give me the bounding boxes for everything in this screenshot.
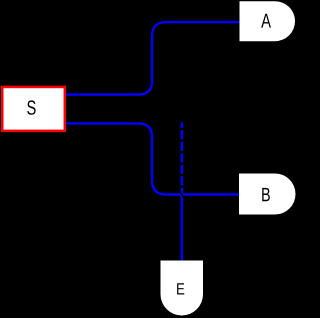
wire junction-E: [181, 195, 183, 261]
terminal A: [240, 1, 296, 41]
dashed wire (hidden route): [181, 122, 183, 194]
junction notch: [181, 192, 184, 196]
wire S-B: [66, 123, 239, 194]
terminal B: [239, 173, 296, 214]
wire S-A: [66, 22, 240, 95]
box S: [2, 87, 65, 131]
terminal E: [161, 261, 204, 316]
